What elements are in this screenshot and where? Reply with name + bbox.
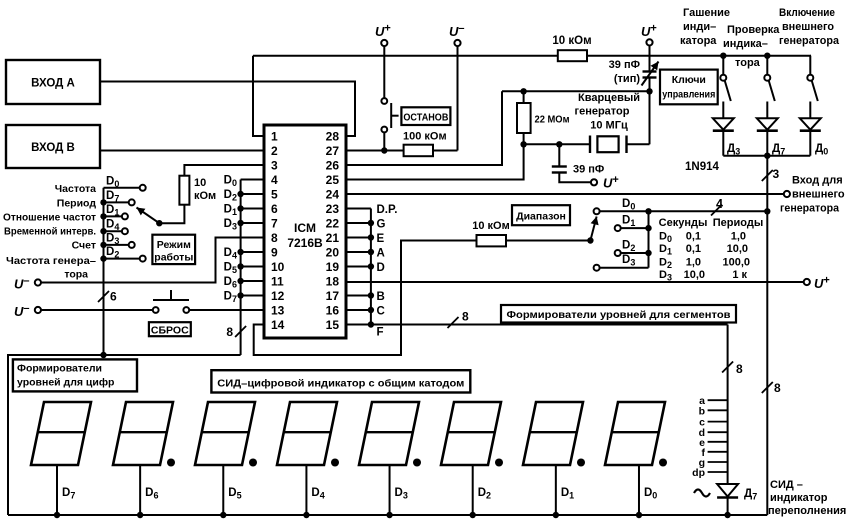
resistor R3 10 kOm (mode) <box>179 176 189 205</box>
wire segment riser down <box>727 325 729 485</box>
svg-text:dp: dp <box>692 467 705 479</box>
display digit D1 seven-segment <box>523 402 583 465</box>
node segment E pin 21 <box>346 237 371 239</box>
svg-text:100 кОм: 100 кОм <box>403 131 447 143</box>
wire digit drop D1 <box>555 465 557 515</box>
svg-text:Период: Период <box>57 198 97 210</box>
svg-text:8: 8 <box>774 381 781 395</box>
svg-text:уровней для цифр: уровней для цифр <box>17 377 114 389</box>
wire range D0 row to overflow riser <box>649 210 768 212</box>
svg-text:генератор: генератор <box>575 106 630 118</box>
box Режим работы <box>152 235 195 264</box>
svg-text:Формирователи уровней для с: Формирователи уровней для сегментов <box>507 309 732 321</box>
wire input A to pin 28 <box>100 82 355 137</box>
svg-text:F: F <box>377 327 384 339</box>
node range wiper pivot <box>587 237 593 243</box>
node digit stub D3 pin 7 <box>241 222 264 224</box>
svg-text:26: 26 <box>326 159 340 173</box>
svg-text:ICM: ICM <box>294 221 316 235</box>
svg-text:ВХОД А: ВХОД А <box>31 78 75 90</box>
wire U- to reset button <box>41 309 153 311</box>
svg-text:Периоды: Периоды <box>713 217 763 229</box>
svg-text:C: C <box>377 306 385 318</box>
terminal U+ (trimmer top) <box>646 39 652 45</box>
svg-text:тора: тора <box>64 269 88 281</box>
wire U+ terminal down to stop switch <box>383 46 385 98</box>
svg-text:8: 8 <box>271 231 278 245</box>
resistor R4 10 kOm (range) <box>477 235 507 246</box>
wire U- to pin 8 <box>41 238 264 283</box>
switch SB1 СБРОС pushbutton <box>153 307 159 313</box>
svg-text:1,0: 1,0 <box>731 231 746 243</box>
svg-text:тора: тора <box>735 57 761 69</box>
svg-text:10: 10 <box>271 260 285 274</box>
svg-text:9: 9 <box>271 246 278 260</box>
wire U+ rail top (253,55.7 to 557.8) left of R1 <box>253 55 558 57</box>
terminal U+ (osc) <box>591 179 597 185</box>
svg-text:17: 17 <box>326 289 340 303</box>
svg-text:Секунды: Секунды <box>659 217 708 229</box>
svg-text:7216В: 7216В <box>287 236 323 250</box>
crystal ZQ1 10 MHz <box>589 136 591 154</box>
svg-text:работы: работы <box>154 252 193 264</box>
display digit D2 seven-segment <box>441 402 501 465</box>
switch control key 1 <box>720 53 726 59</box>
node segment C pin 16 <box>346 309 371 311</box>
wire osc top line <box>502 90 650 92</box>
svg-text:39 пФ: 39 пФ <box>573 164 604 176</box>
node digit stub D4 pin 9 <box>241 251 264 253</box>
svg-text:Включение: Включение <box>779 7 835 19</box>
svg-text:16: 16 <box>326 304 340 318</box>
svg-text:6: 6 <box>110 290 117 304</box>
wire pin 14 to R4 <box>254 241 477 356</box>
block ВХОД В <box>6 125 100 168</box>
svg-text:8: 8 <box>736 362 743 376</box>
svg-text:19: 19 <box>326 260 340 274</box>
node segment G pin 22 <box>346 222 371 224</box>
svg-text:3: 3 <box>271 159 278 173</box>
segment fanout ticks a-dp <box>708 399 728 401</box>
svg-text:ВХОД В: ВХОД В <box>31 142 75 154</box>
node mode wiper pivot <box>156 220 162 226</box>
svg-text:D.P.: D.P. <box>377 204 398 216</box>
svg-text:5: 5 <box>271 188 278 202</box>
wire pin 24 to ext osc terminal <box>346 193 784 195</box>
wire U+ to trimmer <box>649 46 651 72</box>
wire digit bus vertical <box>240 180 242 356</box>
riser slash 8 (lower) <box>762 382 773 393</box>
svg-text:28: 28 <box>326 130 340 144</box>
svg-text:11: 11 <box>271 275 284 289</box>
node LED to bottom bus <box>724 512 730 518</box>
diode Д0 <box>800 118 821 129</box>
svg-text:23: 23 <box>326 202 340 216</box>
svg-text:0,1: 0,1 <box>686 231 701 243</box>
terminal U- (top) <box>454 40 460 46</box>
wire trimmer to crystal right <box>649 78 651 145</box>
svg-text:39 пФ: 39 пФ <box>609 59 640 71</box>
node segment D.P. pin 23 <box>346 208 371 210</box>
svg-text:3: 3 <box>773 167 780 181</box>
svg-text:СБРОС: СБРОС <box>151 324 189 336</box>
svg-text:Кварцевый: Кварцевый <box>578 92 640 104</box>
svg-text:(тип): (тип) <box>614 73 640 85</box>
svg-text:1,0: 1,0 <box>686 257 701 269</box>
wire crystal left lead <box>524 143 590 145</box>
node diode bus center <box>764 153 770 159</box>
svg-text:инди–: инди– <box>683 21 716 33</box>
wire stop switch to node (pin27) <box>383 132 385 150</box>
svg-text:10 МГц: 10 МГц <box>590 120 628 132</box>
svg-text:10,0: 10,0 <box>684 269 705 281</box>
svg-text:B: B <box>377 291 385 303</box>
svg-text:Проверка: Проверка <box>727 24 780 36</box>
svg-text:4: 4 <box>271 173 278 187</box>
svg-text:15: 15 <box>326 318 340 332</box>
node segment bus bottom (pin 15 F) <box>368 321 374 327</box>
wire U+ rail top (587 to 811) right of R1 <box>587 55 811 57</box>
terminal U- (left upper) <box>35 279 41 285</box>
svg-text:13: 13 <box>271 304 285 318</box>
svg-text:Частота: Частота <box>55 183 96 195</box>
svg-text:18: 18 <box>326 275 340 289</box>
svg-text:переполнения: переполнения <box>768 505 846 517</box>
wire digit drop D5 <box>222 465 224 515</box>
wire pin 27 to R2 <box>346 150 404 152</box>
wire input B to pin 2 <box>100 150 264 152</box>
svg-text:7: 7 <box>271 217 278 231</box>
node 39pF top junction <box>556 141 562 147</box>
wire digit drop D3 <box>389 465 391 515</box>
box СИД-цифровой индикатор с общим катодом <box>211 370 470 392</box>
svg-text:10,0: 10,0 <box>727 243 748 255</box>
digit bus slash 8 <box>235 326 246 337</box>
bus slash 6 <box>98 291 109 302</box>
node mode contact D4 <box>104 230 122 232</box>
wire digit drop D7 <box>56 465 58 515</box>
svg-text:14: 14 <box>271 318 285 332</box>
svg-text:1: 1 <box>271 130 278 144</box>
svg-text:G: G <box>377 219 386 231</box>
wire reset button to pin 13 <box>189 309 264 311</box>
terminal ext osc input <box>784 191 790 197</box>
svg-text:Гашение: Гашение <box>683 7 730 19</box>
wire pin1 feed: rail corner down to pin 1 <box>253 56 264 136</box>
segment riser slash 8 <box>722 362 733 373</box>
svg-text:0,1: 0,1 <box>686 243 701 255</box>
diode Д7 <box>757 118 778 129</box>
node mode contact D0 <box>104 187 140 189</box>
wire pin 15 F row to segment riser <box>346 324 728 326</box>
wire digit drop D4 <box>305 465 307 515</box>
svg-text:8: 8 <box>226 325 233 339</box>
svg-text:внешнего: внешнего <box>792 189 845 201</box>
node segment B pin 17 <box>346 295 371 297</box>
box Ключи управления <box>660 70 718 105</box>
box Формирователи уровней для цифр <box>13 359 137 391</box>
svg-text:Ключи: Ключи <box>672 74 706 86</box>
svg-text:катора: катора <box>680 35 717 47</box>
box ОСТАНОВ <box>401 107 450 125</box>
svg-text:22 МОм: 22 МОм <box>535 114 570 126</box>
node mode contact D2 <box>104 258 140 260</box>
node mode contact D1 <box>104 215 122 217</box>
op-amp U1 ICM7216B (IC) <box>264 125 346 338</box>
svg-text:Формирователи: Формирователи <box>17 363 102 375</box>
svg-text:4: 4 <box>716 197 723 211</box>
terminal U+ (mid right) <box>804 279 810 285</box>
svg-text:D: D <box>377 262 385 274</box>
node digit stub D7 pin 12 <box>241 295 264 297</box>
node mode contact D7 <box>104 201 129 203</box>
display digit D0 seven-segment <box>605 402 665 465</box>
capacitor C2 trimmer 39 pF (тип) <box>643 70 657 72</box>
svg-text:22: 22 <box>326 217 340 231</box>
wire overflow riser (diodes to bottom bus) <box>766 156 768 515</box>
svg-text:27: 27 <box>326 144 340 158</box>
wire pin 3 to R3 <box>184 165 264 176</box>
node mode bus to digit line <box>100 352 106 358</box>
wire bottom digit bus <box>8 514 767 516</box>
wire digit drop D2 <box>472 465 474 515</box>
svg-text:10: 10 <box>194 177 206 189</box>
node D0 row / riser junction <box>764 208 770 214</box>
node digit stub D0 pin 4 <box>241 179 264 181</box>
node pin27/R2 junction <box>381 147 387 153</box>
svg-text:Отношение частот: Отношение частот <box>3 212 96 224</box>
node R5 top <box>520 88 526 94</box>
wire pin 18 to U+ <box>346 281 804 283</box>
LED Д7 overflow indicator <box>717 484 738 497</box>
svg-text:кОм: кОм <box>194 190 216 202</box>
wire R2 to U- riser <box>433 150 458 152</box>
node range bus top <box>645 208 651 214</box>
switch SA3 range wiper arm <box>590 217 596 241</box>
svg-text:индикатор: индикатор <box>770 492 828 504</box>
resistor R5 22 MOm <box>523 91 525 103</box>
svg-text:21: 21 <box>326 231 340 245</box>
svg-text:генератора: генератора <box>780 203 840 215</box>
wire R4 to range wiper <box>506 240 590 242</box>
wire range contact bus <box>648 211 650 267</box>
display digit D7 seven-segment <box>31 402 91 465</box>
svg-text:Режим: Режим <box>157 239 191 251</box>
node range contact D3 <box>594 265 600 271</box>
wire segment collect bus <box>370 209 372 325</box>
svg-text:6: 6 <box>271 202 278 216</box>
node range contact D1 <box>615 225 621 231</box>
node segment D pin 19 <box>346 266 371 268</box>
svg-text:генератора: генератора <box>779 35 840 47</box>
diode Д3 <box>713 118 734 129</box>
svg-text:20: 20 <box>326 246 340 260</box>
svg-text:100,0: 100,0 <box>722 257 750 269</box>
node segment A pin 20 <box>346 251 371 253</box>
svg-text:10 кОм: 10 кОм <box>472 220 510 232</box>
node trimmer bottom junction <box>646 88 652 94</box>
wire slash 4 on D0 row <box>711 205 722 216</box>
svg-text:управления: управления <box>662 89 715 101</box>
svg-text:Частота генера–: Частота генера– <box>6 255 96 267</box>
wire U- riser <box>457 46 459 150</box>
svg-text:1 к: 1 к <box>732 269 747 281</box>
node digit stub D2 pin 5 <box>241 193 264 195</box>
wire digit drop D6 <box>139 465 141 515</box>
switch SA1 ОСТАНОВ pushbutton contacts <box>381 98 387 104</box>
svg-text:ОСТАНОВ: ОСТАНОВ <box>403 112 448 124</box>
resistor R1 10 kOm (top rail) <box>558 50 587 61</box>
node digit stub D6 pin 11 <box>241 280 264 282</box>
svg-text:b: b <box>699 405 705 417</box>
svg-text:Счет: Счет <box>72 240 96 252</box>
wire pin 26 riser <box>346 91 502 165</box>
node range contact D0 <box>594 208 600 214</box>
svg-text:2: 2 <box>271 144 278 158</box>
node digit stub D1 pin 6 <box>241 208 264 210</box>
wire digit line left + frame <box>8 355 241 515</box>
svg-text:A: A <box>377 248 385 260</box>
wire mode contact bus <box>103 188 105 355</box>
segment line slash 8 <box>448 317 459 328</box>
node mode contact D3 <box>104 244 129 246</box>
svg-text:внешнего: внешнего <box>782 21 834 33</box>
capacitor C1 39 pF <box>558 144 560 166</box>
svg-text:СИД–цифровой индикатор с об: СИД–цифровой индикатор с общим катодом <box>217 377 464 389</box>
display digit D5 seven-segment <box>195 402 255 465</box>
block ВХОД А <box>6 60 100 104</box>
wire R3 to wiper pivot <box>159 205 184 224</box>
svg-text:Временной интерв.: Временной интерв. <box>4 226 96 238</box>
switch control key 2 <box>764 53 770 59</box>
switch SA2 mode wiper arm <box>137 208 160 224</box>
terminal U+ (top left) <box>381 40 387 46</box>
node crystal left junction <box>520 141 526 147</box>
display digit D4 seven-segment <box>277 402 337 465</box>
riser slash 3 <box>762 170 773 181</box>
svg-text:8: 8 <box>462 310 469 324</box>
wire digit drop D0 <box>638 465 640 515</box>
svg-text:Диапазон: Диапазон <box>516 210 566 222</box>
svg-text:24: 24 <box>326 188 340 202</box>
box Формирователи уровней для сегментов <box>501 305 736 323</box>
svg-text:Вход для: Вход для <box>792 175 843 187</box>
resistor R2 100 kOm <box>404 145 433 157</box>
switch control key 3 <box>809 55 812 57</box>
svg-text:индика–: индика– <box>723 38 768 50</box>
svg-text:12: 12 <box>271 289 285 303</box>
wire pin 25 riser <box>346 144 524 179</box>
svg-text:10 кОм: 10 кОм <box>552 35 591 47</box>
node digit stub D5 pin 10 <box>241 266 264 268</box>
svg-text:1N914: 1N914 <box>685 161 719 173</box>
svg-text:E: E <box>377 233 385 245</box>
svg-text:СИД –: СИД – <box>770 479 803 491</box>
wire diode cathode bus <box>723 155 810 157</box>
svg-text:25: 25 <box>326 173 340 187</box>
box СБРОС <box>149 322 191 336</box>
display digit D6 seven-segment <box>113 402 173 465</box>
display digit D3 seven-segment <box>359 402 419 465</box>
terminal U- (left lower) <box>35 307 41 313</box>
node range contact D2 <box>615 250 621 256</box>
box Диапазон <box>512 205 570 225</box>
